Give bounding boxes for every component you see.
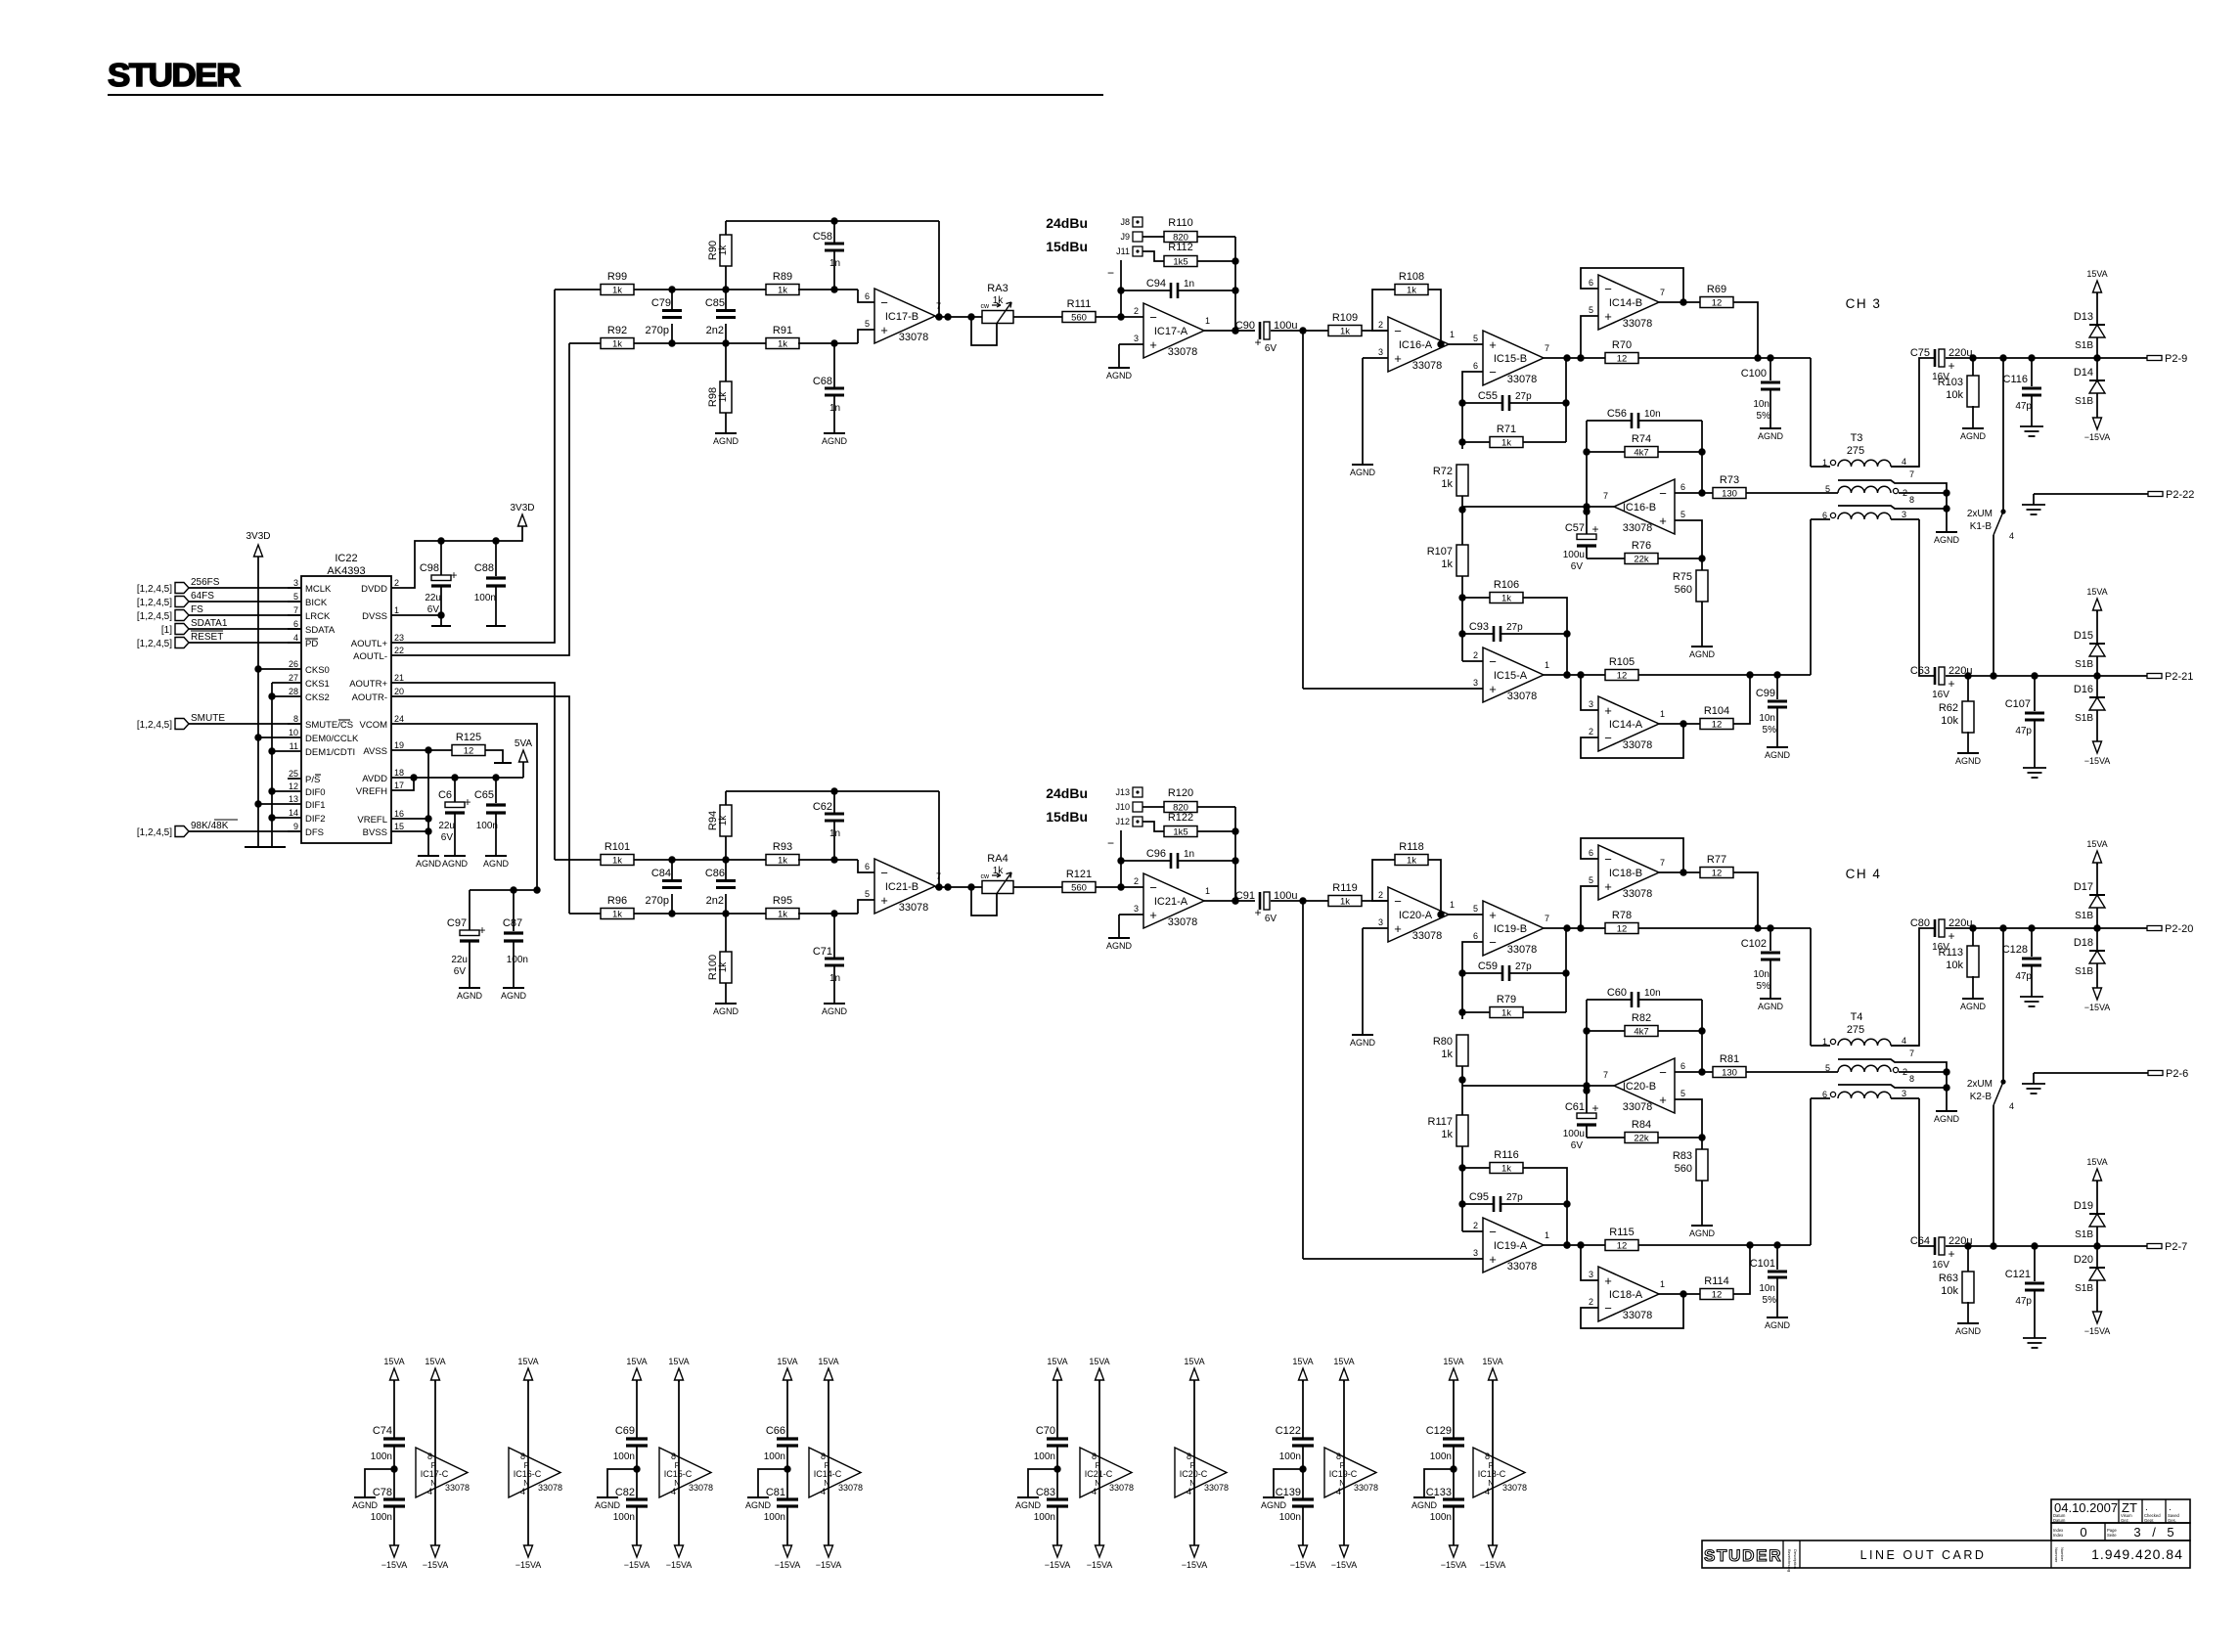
svg-text:AK4393: AK4393	[327, 565, 365, 577]
svg-text:12: 12	[1617, 1241, 1628, 1252]
svg-text:SMUTE: SMUTE	[191, 713, 225, 724]
svg-text:R111: R111	[1067, 298, 1092, 310]
svg-text:33078: 33078	[1109, 1483, 1134, 1493]
svg-text:100n: 100n	[613, 1451, 635, 1462]
svg-text:DVDD: DVDD	[361, 584, 387, 595]
svg-text:DVSS: DVSS	[362, 611, 387, 622]
svg-text:16: 16	[394, 809, 404, 819]
svg-text:C128: C128	[2002, 944, 2028, 956]
svg-text:4: 4	[821, 1487, 826, 1496]
svg-text:C93: C93	[1469, 621, 1489, 633]
svg-text:33078: 33078	[899, 902, 929, 914]
svg-text:+: +	[1604, 879, 1612, 894]
svg-text:BICK: BICK	[305, 598, 328, 608]
svg-text:12: 12	[1712, 1290, 1723, 1301]
svg-text:.: .	[2169, 1502, 2172, 1513]
svg-text:AOUTR-: AOUTR-	[352, 692, 387, 703]
svg-text:−: −	[880, 866, 888, 880]
svg-text:R105: R105	[1609, 656, 1635, 668]
svg-text:22k: 22k	[1634, 555, 1649, 565]
svg-text:6V: 6V	[1571, 561, 1584, 572]
svg-text:16V: 16V	[1932, 690, 1949, 700]
svg-text:1k: 1k	[1340, 327, 1350, 337]
svg-text:SDATA1: SDATA1	[191, 618, 228, 629]
svg-text:STUDER: STUDER	[108, 58, 241, 94]
svg-text:.: .	[2145, 1502, 2148, 1513]
svg-text:22u: 22u	[438, 821, 455, 831]
svg-text:AGND: AGND	[1015, 1500, 1042, 1510]
svg-text:7: 7	[1909, 1049, 1914, 1058]
svg-text:8: 8	[671, 1451, 676, 1461]
svg-text:DIF0: DIF0	[305, 787, 326, 798]
svg-text:15VA: 15VA	[1089, 1357, 1109, 1366]
svg-text:AGND: AGND	[822, 436, 848, 446]
svg-text:−: −	[1604, 852, 1612, 867]
svg-text:−15VA: −15VA	[2084, 1326, 2111, 1336]
svg-text:−15VA: −15VA	[1480, 1560, 1506, 1570]
svg-text:1: 1	[1545, 1230, 1549, 1240]
svg-text:4: 4	[293, 633, 298, 643]
svg-text:1k: 1k	[718, 961, 729, 973]
svg-text:27p: 27p	[1515, 391, 1532, 402]
svg-text:1k: 1k	[1501, 1008, 1511, 1019]
svg-text:R117: R117	[1428, 1116, 1453, 1128]
svg-text:R74: R74	[1632, 433, 1651, 445]
svg-text:1k: 1k	[1441, 1129, 1453, 1140]
svg-text:22u: 22u	[425, 593, 441, 603]
svg-text:CKS0: CKS0	[305, 665, 330, 676]
svg-text:2: 2	[1378, 320, 1383, 330]
svg-text:AGND: AGND	[1350, 468, 1376, 477]
svg-text:IC18-B: IC18-B	[1609, 868, 1642, 879]
svg-text:AGND: AGND	[1261, 1500, 1287, 1510]
svg-text:24dBu: 24dBu	[1046, 215, 1088, 231]
svg-text:R101: R101	[605, 841, 630, 853]
svg-text:IC21-C: IC21-C	[1085, 1469, 1113, 1479]
svg-text:−15VA: −15VA	[1182, 1560, 1208, 1570]
svg-text:100n: 100n	[764, 1451, 785, 1462]
svg-text:AOUTR+: AOUTR+	[349, 679, 387, 690]
svg-text:9: 9	[293, 822, 298, 831]
svg-text:2: 2	[1589, 727, 1593, 737]
svg-text:1: 1	[1660, 709, 1665, 719]
svg-text:[1,2,4,5]: [1,2,4,5]	[137, 827, 172, 838]
svg-text:15: 15	[394, 822, 404, 831]
svg-text:100n: 100n	[1279, 1512, 1301, 1523]
svg-text:33078: 33078	[1168, 346, 1198, 358]
svg-text:CKS2: CKS2	[305, 692, 330, 703]
svg-text:12: 12	[1617, 924, 1628, 935]
svg-text:C101: C101	[1750, 1258, 1775, 1270]
svg-text:560: 560	[1071, 313, 1087, 324]
svg-text:−15VA: −15VA	[2084, 432, 2111, 442]
svg-text:AGND: AGND	[1765, 750, 1791, 760]
svg-text:[1,2,4,5]: [1,2,4,5]	[137, 720, 172, 731]
svg-text:R109: R109	[1332, 312, 1358, 324]
svg-text:1n: 1n	[1184, 849, 1194, 860]
svg-text:47p: 47p	[2015, 971, 2032, 982]
svg-text:3: 3	[1134, 334, 1139, 343]
svg-text:100n: 100n	[1034, 1451, 1055, 1462]
svg-text:R95: R95	[773, 895, 792, 907]
svg-text:AOUTL-: AOUTL-	[353, 651, 387, 662]
svg-text:1k: 1k	[1441, 1049, 1453, 1060]
svg-text:IC16-A: IC16-A	[1399, 339, 1433, 351]
svg-text:Description: Description	[1793, 1549, 1798, 1569]
svg-text:100n: 100n	[476, 821, 498, 831]
svg-text:IC18-C: IC18-C	[1478, 1469, 1506, 1479]
svg-text:AGND: AGND	[745, 1500, 772, 1510]
svg-text:FS: FS	[191, 604, 203, 615]
svg-text:8: 8	[1092, 1451, 1097, 1461]
svg-text:15dBu: 15dBu	[1046, 809, 1088, 825]
svg-text:S1B: S1B	[2075, 340, 2093, 351]
svg-text:2: 2	[1473, 1221, 1478, 1230]
svg-text:2xUM: 2xUM	[1967, 509, 1993, 519]
svg-text:−: −	[1149, 310, 1157, 325]
svg-text:DIF1: DIF1	[305, 800, 326, 811]
svg-text:4: 4	[427, 1487, 432, 1496]
svg-text:C100: C100	[1741, 368, 1767, 380]
svg-text:+: +	[478, 923, 485, 937]
svg-text:IC21-B: IC21-B	[885, 881, 918, 893]
svg-text:20: 20	[394, 687, 404, 696]
svg-text:IC16-B: IC16-B	[1623, 502, 1656, 513]
svg-text:C70: C70	[1036, 1425, 1055, 1437]
svg-text:C80: C80	[1910, 917, 1930, 929]
svg-text:IC15-B: IC15-B	[1494, 353, 1527, 365]
svg-text:R120: R120	[1168, 787, 1193, 799]
svg-text:D18: D18	[2074, 937, 2093, 949]
svg-text:C91: C91	[1235, 890, 1255, 902]
svg-text:C96: C96	[1146, 848, 1166, 860]
svg-text:−: −	[1604, 1301, 1612, 1316]
svg-text:C94: C94	[1146, 278, 1166, 290]
svg-text:0: 0	[2080, 1525, 2086, 1540]
svg-text:MCLK: MCLK	[305, 584, 332, 595]
svg-text:4: 4	[2009, 1101, 2014, 1111]
svg-text:5: 5	[1825, 484, 1830, 494]
svg-text:4: 4	[1902, 457, 1906, 467]
svg-text:6: 6	[293, 619, 298, 629]
svg-text:R103: R103	[1938, 377, 1963, 388]
svg-text:−: −	[1489, 654, 1497, 669]
svg-text:C107: C107	[2005, 698, 2031, 710]
svg-text:100n: 100n	[1279, 1451, 1301, 1462]
svg-text:+: +	[450, 568, 457, 582]
svg-text:2n2: 2n2	[706, 895, 724, 907]
svg-text:C56: C56	[1607, 408, 1627, 420]
svg-text:IC19-A: IC19-A	[1494, 1240, 1528, 1252]
svg-text:100n: 100n	[1034, 1512, 1055, 1523]
svg-text:−: −	[1107, 266, 1114, 280]
svg-text:T4: T4	[1851, 1011, 1863, 1023]
svg-text:3: 3	[1589, 1270, 1593, 1279]
svg-text:−: −	[1394, 894, 1402, 909]
svg-text:10k: 10k	[1941, 1285, 1958, 1297]
svg-text:R107: R107	[1427, 546, 1453, 558]
svg-text:R70: R70	[1612, 339, 1632, 351]
svg-text:DFS: DFS	[305, 827, 324, 838]
svg-text:6: 6	[1589, 278, 1593, 288]
svg-text:7: 7	[1909, 469, 1914, 479]
svg-text:R76: R76	[1632, 540, 1651, 552]
svg-text:8: 8	[427, 1451, 432, 1461]
svg-text:3V3D: 3V3D	[246, 531, 270, 542]
svg-text:IC20-B: IC20-B	[1623, 1081, 1656, 1093]
svg-text:2: 2	[1134, 876, 1139, 886]
svg-text:1k: 1k	[718, 391, 729, 403]
svg-text:1: 1	[1450, 900, 1455, 910]
svg-text:1n: 1n	[829, 828, 840, 839]
svg-text:10k: 10k	[1946, 960, 1963, 971]
svg-text:+: +	[1604, 309, 1612, 324]
svg-text:6V: 6V	[454, 966, 467, 977]
svg-text:4: 4	[1092, 1487, 1097, 1496]
svg-text:C99: C99	[1756, 688, 1775, 699]
svg-text:1k: 1k	[1407, 286, 1416, 296]
svg-text:18: 18	[394, 768, 404, 778]
svg-text:16V: 16V	[1932, 1260, 1949, 1271]
svg-text:100u: 100u	[1563, 550, 1585, 560]
svg-text:+: +	[1604, 1273, 1612, 1288]
svg-text:8: 8	[1909, 495, 1914, 505]
svg-text:6: 6	[1473, 931, 1478, 941]
svg-text:+: +	[1591, 522, 1598, 536]
svg-text:3: 3	[293, 578, 298, 588]
svg-text:15VA: 15VA	[425, 1357, 445, 1366]
svg-text:12: 12	[1712, 298, 1723, 309]
svg-text:C98: C98	[420, 562, 439, 574]
svg-text:C121: C121	[2005, 1269, 2031, 1280]
svg-text:5: 5	[1473, 334, 1478, 343]
svg-text:IC16-C: IC16-C	[514, 1469, 542, 1479]
svg-text:47p: 47p	[2015, 726, 2032, 737]
svg-text:R82: R82	[1632, 1012, 1651, 1024]
svg-text:CH 4: CH 4	[1846, 867, 1882, 881]
svg-text:1k: 1k	[1407, 856, 1416, 867]
svg-text:K1-B: K1-B	[1970, 521, 1993, 532]
svg-text:S1B: S1B	[2075, 1229, 2093, 1240]
svg-text:15VA: 15VA	[1184, 1357, 1204, 1366]
svg-text:3: 3	[1473, 678, 1478, 688]
svg-text:6: 6	[1680, 1061, 1685, 1071]
svg-text:−15VA: −15VA	[2084, 756, 2111, 766]
svg-text:R92: R92	[607, 325, 627, 336]
svg-text:C87: C87	[503, 917, 522, 929]
svg-text:Index: Index	[2053, 1533, 2064, 1538]
svg-text:12: 12	[1617, 354, 1628, 365]
svg-text:AGND: AGND	[1955, 1326, 1982, 1336]
svg-text:6V: 6V	[1571, 1140, 1584, 1151]
svg-text:22: 22	[394, 646, 404, 655]
svg-text:+: +	[1254, 335, 1261, 349]
svg-text:6V: 6V	[1265, 914, 1277, 924]
svg-text:4: 4	[671, 1487, 676, 1496]
svg-text:−: −	[1489, 935, 1497, 950]
svg-text:D19: D19	[2074, 1200, 2093, 1212]
svg-text:P2-7: P2-7	[2165, 1241, 2187, 1253]
svg-text:J13: J13	[1115, 787, 1130, 797]
svg-text:IC14-A: IC14-A	[1609, 719, 1643, 731]
svg-text:275: 275	[1847, 445, 1864, 457]
svg-text:270p: 270p	[646, 325, 669, 336]
svg-text:+: +	[1489, 1252, 1497, 1267]
svg-text:C65: C65	[474, 789, 494, 801]
svg-text:R62: R62	[1939, 702, 1958, 714]
svg-text:1k: 1k	[718, 815, 729, 826]
svg-text:R78: R78	[1612, 910, 1632, 921]
svg-text:3: 3	[1902, 510, 1906, 519]
svg-text:4: 4	[1187, 1487, 1191, 1496]
svg-text:AGND: AGND	[1106, 371, 1133, 380]
svg-text:+: +	[1149, 908, 1157, 922]
svg-text:3: 3	[1473, 1248, 1478, 1258]
svg-text:AGND: AGND	[713, 1006, 739, 1016]
svg-text:IC20-C: IC20-C	[1180, 1469, 1208, 1479]
svg-text:12: 12	[289, 781, 298, 791]
svg-text:10k: 10k	[1941, 715, 1958, 727]
svg-text:130: 130	[1722, 1068, 1737, 1079]
svg-text:1k: 1k	[1501, 1164, 1511, 1175]
svg-text:−: −	[1659, 1065, 1667, 1080]
svg-text:AVDD: AVDD	[362, 774, 387, 784]
svg-text:/: /	[2152, 1525, 2156, 1540]
svg-text:C116: C116	[2003, 374, 2028, 385]
svg-text:−: −	[880, 295, 888, 310]
svg-text:BVSS: BVSS	[363, 827, 387, 838]
svg-text:−15VA: −15VA	[381, 1560, 408, 1570]
svg-text:AGND: AGND	[595, 1500, 621, 1510]
svg-text:1k: 1k	[778, 286, 787, 296]
svg-text:IC19-B: IC19-B	[1494, 923, 1527, 935]
svg-text:10: 10	[289, 728, 298, 737]
svg-text:1: 1	[1205, 316, 1210, 326]
svg-text:10n: 10n	[1759, 713, 1775, 724]
svg-text:33078: 33078	[538, 1483, 562, 1493]
svg-text:S1B: S1B	[2075, 396, 2093, 407]
svg-text:RA3: RA3	[987, 283, 1008, 294]
svg-text:7: 7	[293, 605, 298, 615]
svg-text:IC20-A: IC20-A	[1399, 910, 1433, 921]
svg-text:−: −	[1107, 836, 1114, 850]
svg-text:15VA: 15VA	[1292, 1357, 1313, 1366]
svg-text:3: 3	[1378, 347, 1383, 357]
svg-text:C129: C129	[1426, 1425, 1452, 1437]
svg-text:10n: 10n	[1753, 399, 1770, 410]
svg-text:21: 21	[394, 673, 404, 683]
svg-text:27: 27	[289, 673, 298, 683]
svg-text:100n: 100n	[1430, 1451, 1452, 1462]
svg-text:AGND: AGND	[1106, 941, 1133, 951]
svg-text:[1,2,4,5]: [1,2,4,5]	[137, 611, 172, 622]
svg-text:1.949.420.84: 1.949.420.84	[2091, 1546, 2183, 1562]
svg-text:27p: 27p	[1506, 622, 1523, 633]
svg-text:22k: 22k	[1634, 1134, 1649, 1144]
svg-text:1k: 1k	[718, 245, 729, 256]
svg-text:C55: C55	[1478, 390, 1498, 402]
svg-text:2: 2	[394, 578, 399, 588]
svg-text:100n: 100n	[764, 1512, 785, 1523]
svg-text:6: 6	[1473, 361, 1478, 371]
svg-text:C122: C122	[1276, 1425, 1301, 1437]
svg-text:1k: 1k	[612, 339, 622, 350]
svg-text:LRCK: LRCK	[305, 611, 331, 622]
svg-text:IC22: IC22	[335, 553, 357, 564]
svg-text:2: 2	[1473, 650, 1478, 660]
svg-text:DIF2: DIF2	[305, 814, 326, 825]
svg-text:P/S: P/S	[305, 775, 320, 785]
svg-text:D13: D13	[2074, 311, 2093, 323]
svg-text:1k: 1k	[778, 856, 787, 867]
svg-text:1k: 1k	[1501, 594, 1511, 604]
svg-text:IC15-C: IC15-C	[664, 1469, 693, 1479]
svg-text:1: 1	[1545, 660, 1549, 670]
svg-text:+: +	[464, 795, 470, 809]
svg-text:3: 3	[1902, 1089, 1906, 1098]
svg-text:C97: C97	[447, 917, 467, 929]
svg-text:28: 28	[289, 687, 298, 696]
svg-text:15VA: 15VA	[1443, 1357, 1463, 1366]
svg-text:5%: 5%	[1757, 411, 1771, 422]
svg-text:560: 560	[1675, 1163, 1692, 1175]
svg-text:15VA: 15VA	[2086, 1157, 2107, 1167]
svg-text:33078: 33078	[445, 1483, 470, 1493]
svg-text:3: 3	[1134, 904, 1139, 914]
svg-text:LINE OUT CARD: LINE OUT CARD	[1860, 1548, 1987, 1562]
svg-text:8: 8	[293, 714, 298, 724]
svg-text:IC18-A: IC18-A	[1609, 1289, 1643, 1301]
svg-text:R108: R108	[1399, 271, 1424, 283]
svg-text:J8: J8	[1120, 217, 1130, 227]
svg-text:DEM0/CCLK: DEM0/CCLK	[305, 734, 359, 744]
svg-text:IC14-C: IC14-C	[814, 1469, 842, 1479]
svg-text:Seite: Seite	[2107, 1533, 2117, 1538]
svg-text:J9: J9	[1120, 232, 1130, 242]
svg-text:−15VA: −15VA	[1441, 1560, 1467, 1570]
svg-text:AGND: AGND	[1758, 431, 1784, 441]
svg-text:1k: 1k	[612, 286, 622, 296]
svg-text:7: 7	[936, 301, 941, 311]
svg-text:10n: 10n	[1644, 409, 1661, 420]
svg-text:IC14-B: IC14-B	[1609, 297, 1642, 309]
svg-text:AGND: AGND	[1758, 1002, 1784, 1011]
svg-text:T3: T3	[1851, 432, 1863, 444]
svg-text:+: +	[1254, 906, 1261, 919]
svg-text:R93: R93	[773, 841, 792, 853]
svg-text:C6: C6	[438, 789, 452, 801]
svg-text:C60: C60	[1607, 987, 1627, 999]
svg-text:8: 8	[520, 1451, 525, 1461]
svg-text:2n2: 2n2	[706, 325, 724, 336]
svg-text:C68: C68	[813, 376, 832, 387]
svg-text:+: +	[880, 893, 888, 908]
svg-text:+: +	[1659, 513, 1667, 528]
svg-text:26: 26	[289, 659, 298, 669]
svg-text:VREFH: VREFH	[356, 786, 387, 797]
svg-text:R106: R106	[1494, 579, 1519, 591]
svg-text:C57: C57	[1565, 522, 1585, 534]
svg-text:4: 4	[1336, 1487, 1341, 1496]
svg-text:SDATA: SDATA	[305, 625, 336, 636]
svg-text:4: 4	[1902, 1036, 1906, 1046]
svg-text:4k7: 4k7	[1634, 448, 1648, 459]
svg-text:−: −	[1659, 486, 1667, 501]
svg-text:5: 5	[1825, 1063, 1830, 1073]
svg-text:12: 12	[1712, 720, 1723, 731]
svg-text:AGND: AGND	[501, 991, 527, 1001]
svg-text:100u: 100u	[1563, 1129, 1585, 1139]
